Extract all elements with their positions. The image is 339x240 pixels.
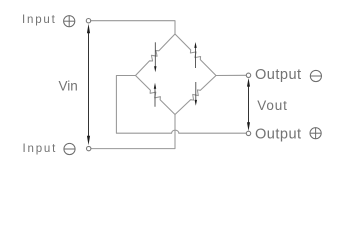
- svg-text:Vin: Vin: [59, 79, 78, 94]
- symbol circled minus (output -): [310, 70, 321, 81]
- strain gauge R2 (top-right arm) zigzag: [175, 34, 216, 76]
- wire hop over bottom vertical: [172, 130, 179, 133]
- terminal Output +: [246, 131, 250, 135]
- wire bottom vertex down and left to Input- terminal: [91, 115, 175, 149]
- gauge arrow R2 (up): [194, 42, 196, 68]
- gauge arrow R4 (down): [195, 82, 197, 106]
- svg-text:Output: Output: [255, 67, 302, 83]
- svg-text:Output: Output: [255, 126, 302, 142]
- Vout dimension line: [247, 78, 250, 131]
- gauge arrow R1 (down): [154, 42, 156, 72]
- Vin dimension line: [87, 24, 90, 146]
- terminal Input -: [87, 146, 91, 150]
- terminal Output -: [246, 73, 250, 77]
- wire left bend: left vertex to Output+ rail: [116, 76, 171, 134]
- symbol circled plus (input +): [64, 16, 75, 27]
- strain gauge R1 (top-left arm) zigzag: [136, 34, 176, 76]
- svg-text:Vout: Vout: [257, 98, 288, 113]
- symbol circled plus (output +): [310, 128, 321, 139]
- symbol circled minus (input -): [64, 143, 75, 154]
- strain gauge R3 (bottom-left arm) zigzag: [136, 76, 176, 115]
- strain gauge R4 (bottom-right arm) zigzag: [175, 76, 216, 115]
- terminal Input +: [86, 19, 90, 23]
- gauge arrow R3 (up): [154, 83, 156, 107]
- svg-text:Input: Input: [22, 14, 57, 26]
- wire bottom rail to Output+ terminal: [179, 132, 246, 134]
- wire top: Input+ terminal to top vertex: [91, 21, 175, 34]
- svg-text:Input: Input: [23, 143, 58, 155]
- wire right vertex to Output- terminal: [216, 74, 246, 76]
